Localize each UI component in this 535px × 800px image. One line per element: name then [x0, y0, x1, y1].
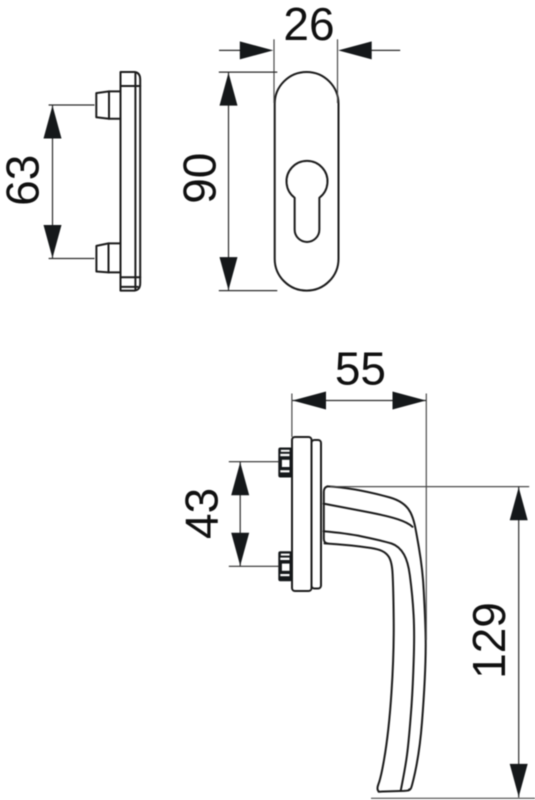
- dimension 26: [219, 0, 400, 103]
- front view euro cylinder keyhole: [286, 161, 327, 242]
- svg-text:90: 90: [174, 153, 226, 204]
- svg-text:43: 43: [176, 488, 228, 539]
- svg-text:63: 63: [0, 155, 49, 206]
- handle bottom fixing screw: [278, 551, 292, 581]
- dimension 43: [176, 462, 280, 567]
- dimension 129: [330, 487, 535, 799]
- side view top screw post: [96, 91, 120, 118]
- handle grip bottom edge: [379, 789, 410, 791]
- handle neck base edge: [324, 486, 328, 543]
- dimension 55: [292, 342, 426, 640]
- handle outer contour (top edge to outer grip edge to tip): [328, 486, 426, 790]
- side view bottom screw post: [96, 243, 120, 272]
- svg-text:129: 129: [463, 602, 515, 679]
- handle rosette plate: [292, 437, 321, 591]
- svg-text:55: 55: [335, 342, 386, 394]
- handle inner contour (neck bottom to inner grip edge): [325, 543, 394, 791]
- handle second contour line (merges into outer): [324, 504, 413, 527]
- dimension 63: [0, 105, 95, 259]
- svg-text:26: 26: [283, 0, 334, 50]
- handle top fixing screw: [278, 448, 292, 478]
- dimension 90: [174, 72, 278, 291]
- handle middle contour line: [324, 531, 415, 791]
- front view escutcheon plate: [275, 72, 339, 291]
- side view escutcheon plate profile: [121, 72, 141, 291]
